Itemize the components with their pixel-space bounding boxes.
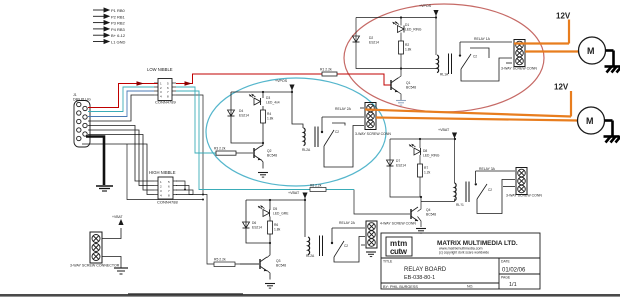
svg-text:D3: D3 bbox=[266, 96, 270, 100]
svg-text:+VBAT: +VBAT bbox=[112, 215, 123, 219]
svg-text:3-WAY SCREW CONNECTOR: 3-WAY SCREW CONNECTOR bbox=[70, 264, 120, 268]
svg-text:ES214: ES214 bbox=[239, 114, 249, 118]
svg-text:M: M bbox=[587, 46, 595, 56]
svg-text:D1: D1 bbox=[405, 23, 409, 27]
svg-text:R3 2.2k: R3 2.2k bbox=[214, 147, 226, 151]
svg-text:1.8k: 1.8k bbox=[267, 117, 274, 121]
svg-text:CONN4788: CONN4788 bbox=[157, 200, 178, 205]
svg-text:R6: R6 bbox=[274, 223, 278, 227]
svg-text:RL?1: RL?1 bbox=[456, 203, 464, 207]
svg-text:12V: 12V bbox=[556, 12, 571, 21]
svg-text:R8 2.2k: R8 2.2k bbox=[310, 184, 322, 188]
svg-text:LED_RING: LED_RING bbox=[423, 154, 440, 158]
svg-text:BY: PHIL BURGESS: BY: PHIL BURGESS bbox=[383, 285, 418, 289]
svg-text:EB-038-80-1: EB-038-80-1 bbox=[404, 275, 435, 281]
svg-text:Q4: Q4 bbox=[426, 208, 431, 212]
svg-text:TITLE: TITLE bbox=[383, 260, 393, 264]
svg-text:01/02/06: 01/02/06 bbox=[502, 268, 526, 274]
svg-text:12V: 12V bbox=[554, 83, 569, 92]
svg-text:RL2A: RL2A bbox=[306, 254, 315, 258]
svg-text:P4 RB3: P4 RB3 bbox=[111, 27, 126, 32]
svg-text:B+ 6-12: B+ 6-12 bbox=[111, 33, 126, 38]
svg-text:HIGH NIBBLE: HIGH NIBBLE bbox=[149, 170, 176, 175]
svg-text:3-WAY SCREW CONN: 3-WAY SCREW CONN bbox=[506, 194, 542, 198]
svg-text:C2: C2 bbox=[488, 188, 492, 192]
svg-text:LOW NIBBLE: LOW NIBBLE bbox=[147, 67, 173, 72]
svg-text:BC548: BC548 bbox=[276, 264, 286, 268]
svg-text:Q2: Q2 bbox=[267, 149, 272, 153]
svg-text:3-WAY SCREW CONN: 3-WAY SCREW CONN bbox=[355, 132, 391, 136]
svg-text:L1 GND: L1 GND bbox=[111, 40, 126, 45]
svg-text:R4: R4 bbox=[267, 112, 271, 116]
svg-text:D7: D7 bbox=[396, 159, 400, 163]
svg-text:C2: C2 bbox=[344, 244, 348, 248]
svg-text:+VBAT: +VBAT bbox=[288, 191, 300, 195]
svg-text:P1 RB0: P1 RB0 bbox=[111, 8, 126, 13]
svg-text:RELAY 2A: RELAY 2A bbox=[339, 221, 356, 225]
svg-text:PAGE: PAGE bbox=[501, 276, 511, 280]
svg-text:D5: D5 bbox=[273, 207, 277, 211]
svg-text:1/1: 1/1 bbox=[509, 282, 517, 288]
svg-text:RELAY 3A: RELAY 3A bbox=[479, 167, 496, 171]
svg-text:RL1A: RL1A bbox=[440, 73, 449, 77]
svg-text:R1 2.2k: R1 2.2k bbox=[320, 68, 332, 72]
svg-text:R5 2.2k: R5 2.2k bbox=[214, 258, 226, 262]
svg-text:J1: J1 bbox=[73, 93, 77, 97]
svg-text:+VBAT: +VBAT bbox=[438, 128, 450, 132]
svg-text:C2: C2 bbox=[473, 55, 477, 59]
svg-text:D6: D6 bbox=[252, 221, 256, 225]
svg-text:BC548: BC548 bbox=[426, 213, 436, 217]
svg-text:LED_RING: LED_RING bbox=[405, 28, 422, 32]
svg-text:M: M bbox=[586, 116, 594, 126]
svg-text:D2: D2 bbox=[369, 36, 373, 40]
svg-text:C2: C2 bbox=[335, 130, 339, 134]
svg-text:D8: D8 bbox=[423, 149, 427, 153]
svg-text:R7: R7 bbox=[424, 166, 428, 170]
svg-text:RELAY 1A: RELAY 1A bbox=[474, 37, 491, 41]
svg-text:CONN4789: CONN4789 bbox=[155, 100, 176, 105]
svg-text:ES214: ES214 bbox=[396, 164, 406, 168]
svg-text:1.2k: 1.2k bbox=[424, 171, 431, 175]
svg-text:NO.: NO. bbox=[467, 285, 473, 289]
svg-text:RL2A: RL2A bbox=[302, 148, 311, 152]
svg-text:ES214: ES214 bbox=[252, 226, 262, 230]
svg-text:DATE: DATE bbox=[501, 260, 511, 264]
svg-text:1.8k: 1.8k bbox=[405, 48, 412, 52]
svg-text:P2 RB1: P2 RB1 bbox=[111, 14, 126, 19]
svg-text:R2: R2 bbox=[405, 43, 409, 47]
svg-text:Q3: Q3 bbox=[276, 259, 281, 263]
svg-text:D4: D4 bbox=[239, 109, 243, 113]
svg-text:BC548: BC548 bbox=[406, 86, 416, 90]
svg-text:1.8k: 1.8k bbox=[274, 228, 281, 232]
svg-text:Q1: Q1 bbox=[406, 81, 411, 85]
svg-text:LED_GRE: LED_GRE bbox=[273, 212, 289, 216]
svg-text:BC548: BC548 bbox=[267, 154, 277, 158]
svg-text:+VPOS: +VPOS bbox=[275, 79, 288, 83]
svg-text:LED_4x4: LED_4x4 bbox=[266, 101, 280, 105]
svg-text:(c) copyright dont scare wor: (c) copyright dont scare worldwide bbox=[439, 251, 489, 255]
svg-text:+VPOS: +VPOS bbox=[419, 4, 432, 8]
svg-text:cutw: cutw bbox=[390, 247, 408, 256]
svg-text:RELAY 2A: RELAY 2A bbox=[335, 107, 352, 111]
svg-text:P3 RB2: P3 RB2 bbox=[111, 21, 126, 26]
svg-text:ES214: ES214 bbox=[369, 41, 379, 45]
svg-text:3-WAY SCREW CONN: 3-WAY SCREW CONN bbox=[501, 67, 537, 71]
svg-text:RELAY BOARD: RELAY BOARD bbox=[404, 267, 447, 273]
svg-text:4-WAY SCREW CONN: 4-WAY SCREW CONN bbox=[380, 222, 416, 226]
